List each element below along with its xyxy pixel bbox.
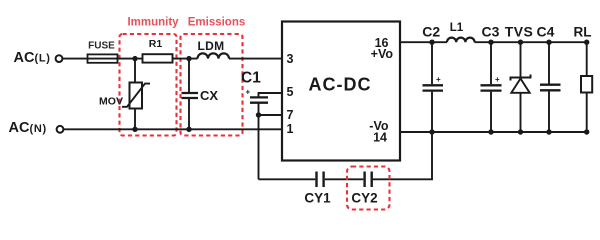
svg-text:AC-DC: AC-DC [309,75,372,95]
svg-text:C2: C2 [422,24,440,40]
capacitor CY2 [365,172,372,188]
wire -Vo rail [400,131,587,133]
wire pin7 [259,114,283,116]
node RL top [584,40,589,45]
node CX top [186,56,191,61]
svg-text:FUSE: FUSE [88,41,115,52]
node C4 bottom [546,129,551,134]
wire +Vo rail [400,41,587,43]
svg-text:LDM: LDM [198,39,225,53]
capacitor C4 [548,42,550,132]
svg-text:MOV: MOV [99,96,123,108]
node TVS bottom [518,129,523,134]
svg-text:7: 7 [287,108,294,122]
svg-text:CY2: CY2 [351,191,377,206]
capacitor C2 [431,42,433,132]
capacitor CX [188,59,190,92]
resistor R1 [143,54,173,62]
svg-text:+Vo: +Vo [371,47,394,61]
node C3 bottom [488,129,493,134]
svg-text:3: 3 [287,52,294,66]
node RL bottom [584,129,589,134]
cy2 dashed box [347,167,390,210]
svg-text:1: 1 [287,122,294,136]
node CX bottom [186,127,191,132]
immunity dashed box [120,34,177,136]
varistor MOV diagonal [122,84,150,107]
diode TVS [520,42,522,77]
svg-text:+: + [436,75,441,84]
wire CY return [259,132,433,179]
node C2 top [429,40,434,45]
inductor LDM [198,53,230,58]
svg-text:CX: CX [200,88,218,103]
svg-text:TVS: TVS [505,24,533,40]
capacitor C3 [490,42,492,132]
svg-text:L1: L1 [450,22,464,34]
svg-text:Immunity: Immunity [127,17,179,29]
capacitor C1 [259,93,283,97]
terminal AC(N) [57,126,64,133]
terminal AC(L) [56,55,63,62]
svg-text:C3: C3 [482,24,500,40]
node MOV top junction [132,56,137,61]
svg-text:14: 14 [373,131,387,145]
svg-text:Emissions: Emissions [188,17,246,29]
emissions dashed box [181,34,243,136]
fuse FUSE [88,54,118,62]
svg-text:+: + [246,88,251,97]
wire AC(L) line [63,58,282,60]
inductor L1 [447,38,475,43]
svg-text:C4: C4 [537,24,555,40]
svg-text:C1: C1 [241,70,261,87]
svg-text:AC(N): AC(N) [9,120,47,136]
svg-text:R1: R1 [149,38,163,50]
wire AC(N) line [64,128,282,130]
capacitor CY1 [317,172,324,188]
node C2 bottom [429,129,434,134]
node TVS top [518,40,523,45]
svg-text:5: 5 [287,85,294,99]
resistor RL [586,42,588,76]
node C3 top [488,40,493,45]
varistor MOV lead top [134,59,136,83]
node C1 pin7 junction [256,112,261,117]
svg-text:CY1: CY1 [304,191,331,206]
node MOV bottom [132,127,137,132]
svg-text:AC(L): AC(L) [14,50,51,66]
node C4 top [546,40,551,45]
varistor MOV body [130,83,143,109]
svg-text:+: + [495,75,500,84]
op-amp U1 AC-DC converter block [282,22,400,161]
svg-text:RL: RL [574,25,592,40]
varistor MOV lead bottom [134,109,136,130]
